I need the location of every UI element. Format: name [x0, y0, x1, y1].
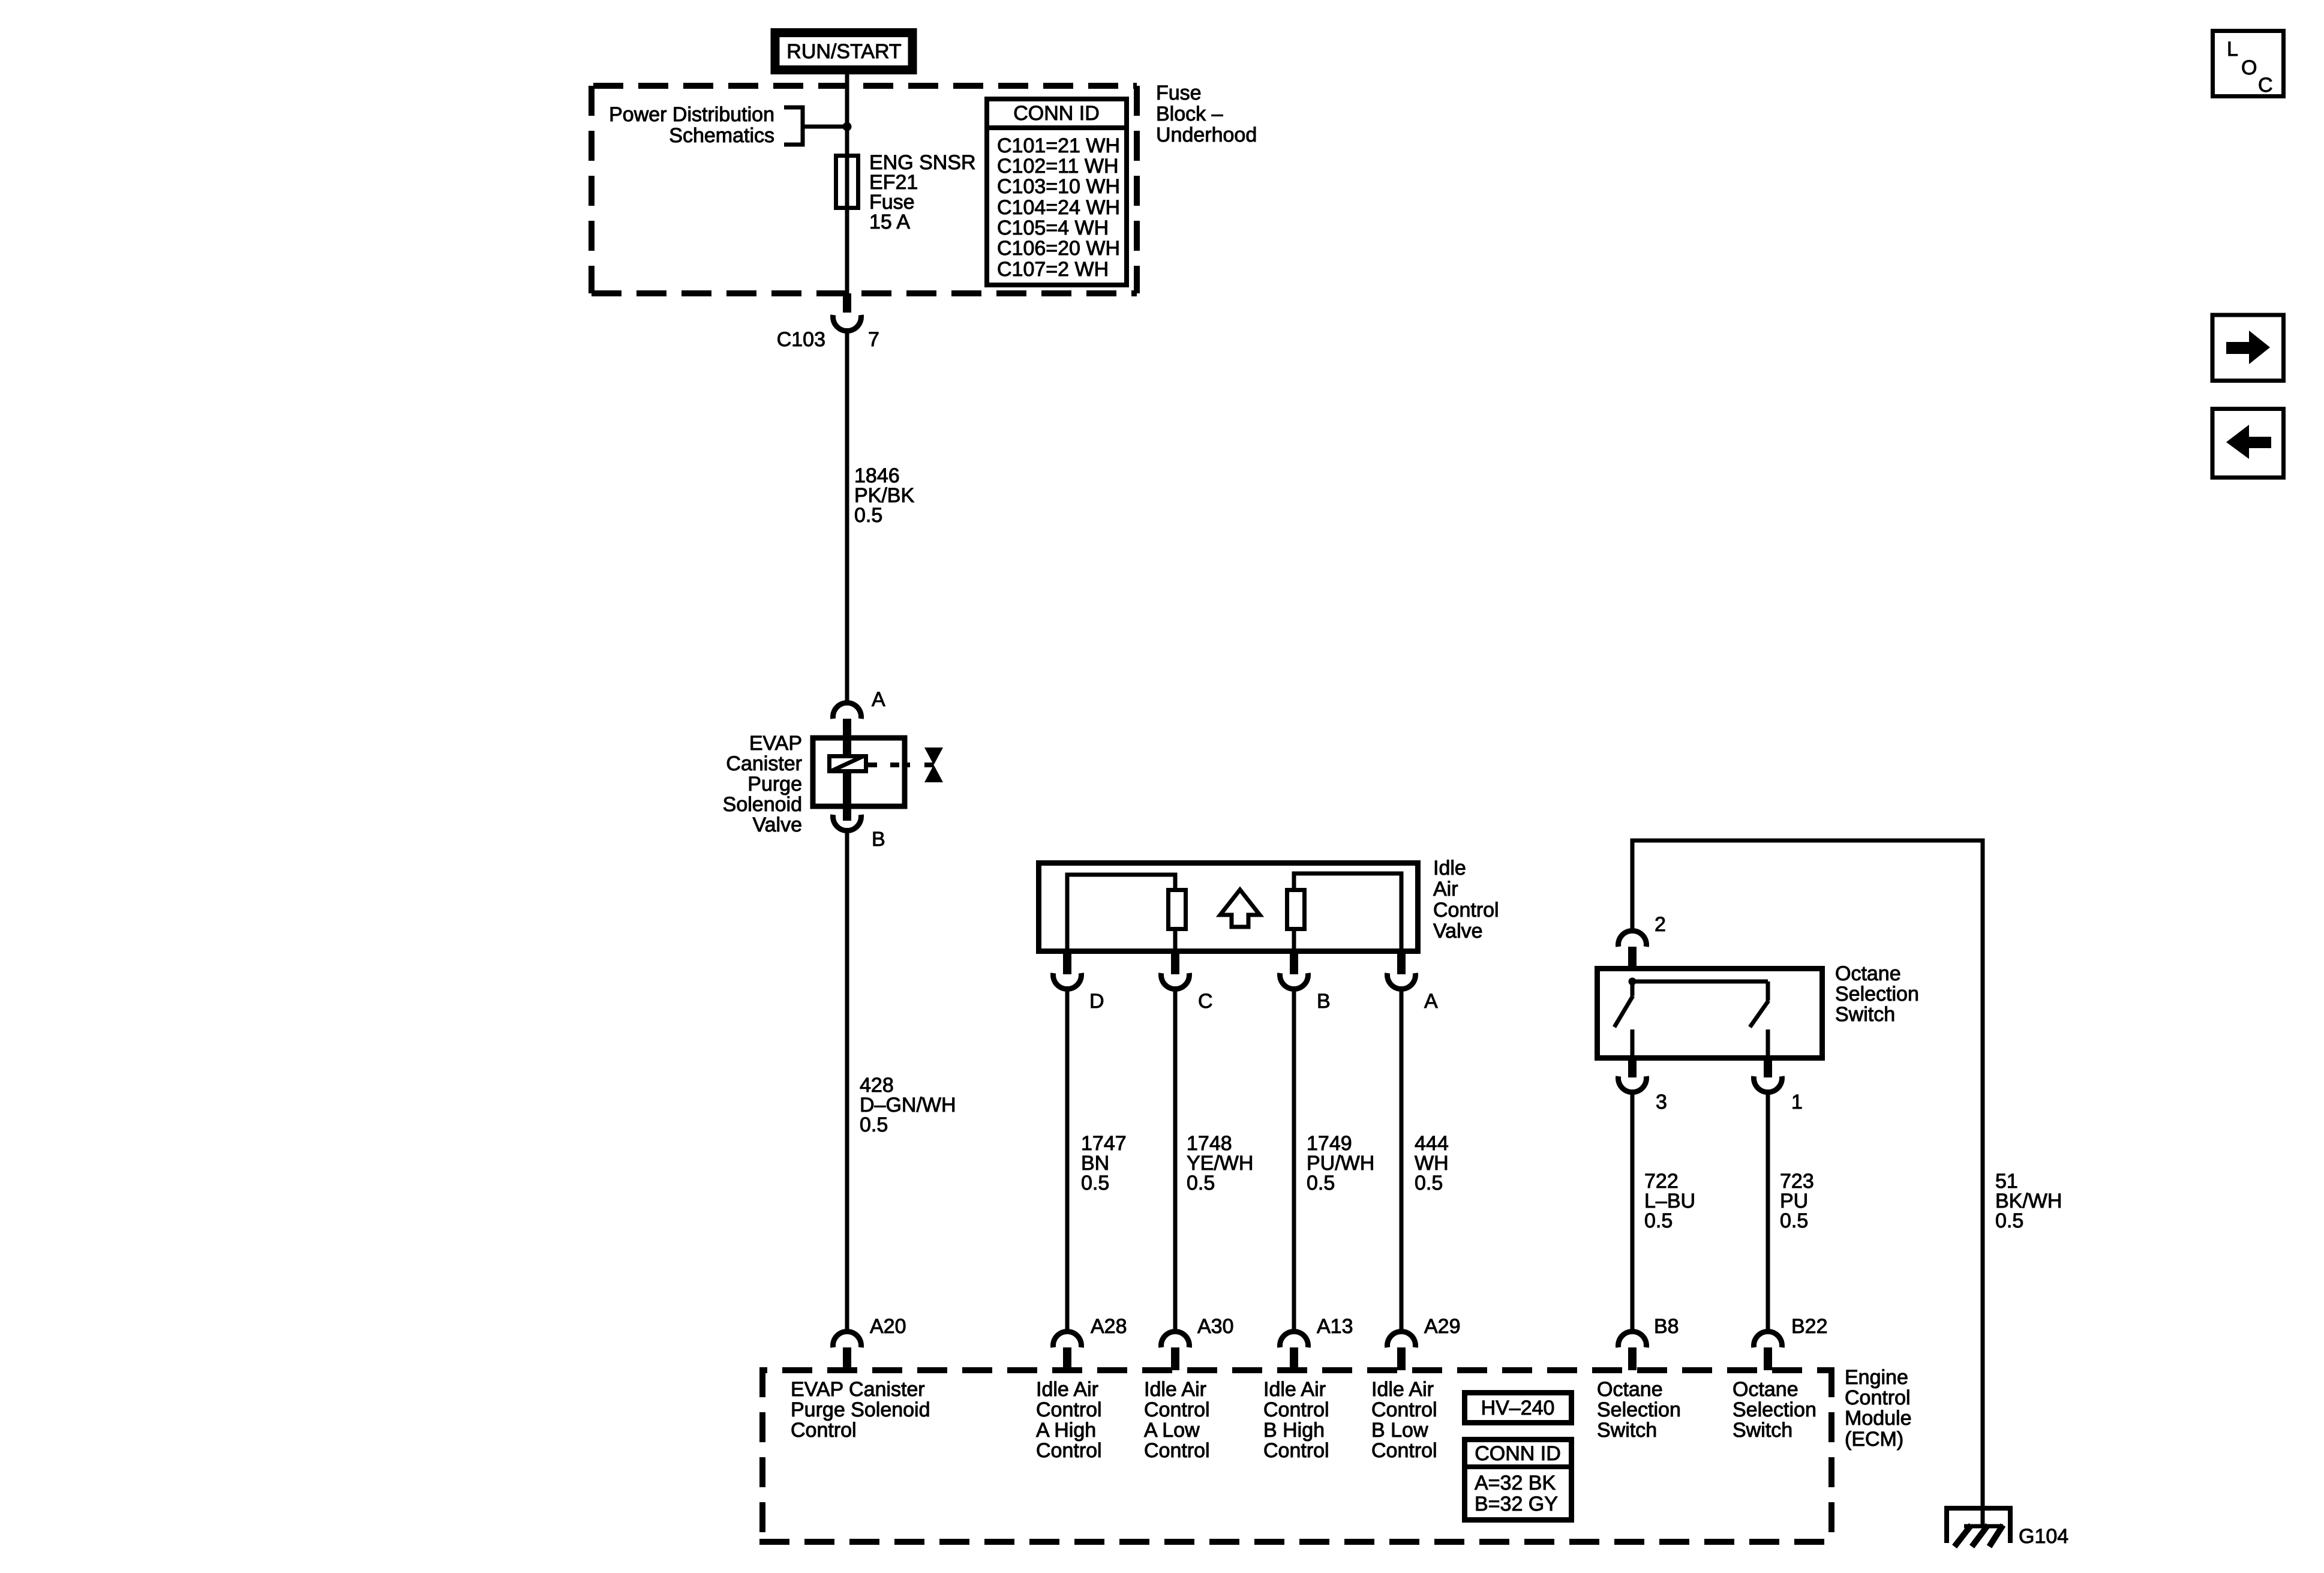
- wire pin 1 to ECM B22: [1766, 1092, 1770, 1333]
- svg-text:Engine: Engine: [1845, 1366, 1908, 1389]
- svg-text:Valve: Valve: [1433, 920, 1483, 942]
- connector C of IAC valve: [1161, 953, 1213, 1013]
- svg-text:A13: A13: [1317, 1315, 1353, 1338]
- LOC reference box: [2213, 31, 2284, 97]
- svg-text:C: C: [2258, 74, 2273, 97]
- IAC coil A (left) wiring: [1067, 875, 1175, 951]
- svg-text:B Low: B Low: [1371, 1419, 1428, 1442]
- svg-text:1: 1: [1791, 1091, 1803, 1113]
- svg-text:Module: Module: [1845, 1407, 1912, 1430]
- svg-text:Control: Control: [1036, 1439, 1102, 1462]
- switch internal wire to second pole: [1632, 980, 1768, 984]
- svg-text:CONN ID: CONN ID: [1475, 1442, 1561, 1465]
- wire 51 BK/WH down right side: [1981, 839, 1985, 1528]
- svg-text:A: A: [872, 688, 885, 711]
- label ENG SNSR EF21 Fuse 15 A: [869, 151, 976, 233]
- wire coil B to pin B: [1292, 931, 1296, 951]
- svg-text:A20: A20: [870, 1315, 906, 1338]
- svg-text:7: 7: [868, 328, 879, 351]
- svg-text:Power Distribution: Power Distribution: [609, 103, 774, 126]
- svg-text:3: 3: [1656, 1091, 1667, 1113]
- svg-text:Control: Control: [1263, 1439, 1329, 1462]
- svg-text:A=32 BK: A=32 BK: [1475, 1472, 1556, 1494]
- svg-text:0.5: 0.5: [1644, 1209, 1673, 1232]
- svg-text:B: B: [1317, 990, 1331, 1013]
- label Engine Control Module (ECM): [1845, 1366, 1912, 1451]
- svg-text:Switch: Switch: [1597, 1419, 1657, 1442]
- ECM dashed box: [759, 1367, 1834, 1545]
- wire IAC D to ECM A28: [1065, 989, 1070, 1334]
- connector C103 pin 7: [777, 293, 879, 351]
- svg-text:Control: Control: [791, 1419, 857, 1442]
- ECM pin function label Idle Air Control A Low Control: [1144, 1378, 1210, 1462]
- svg-text:Control: Control: [1144, 1398, 1210, 1421]
- svg-text:HV–240: HV–240: [1481, 1397, 1555, 1419]
- svg-text:Solenoid: Solenoid: [723, 793, 802, 816]
- ECM pin function label Octane Selection Switch (B22): [1733, 1378, 1816, 1442]
- IAC arrow symbol: [1220, 890, 1260, 927]
- svg-text:0.5: 0.5: [860, 1113, 888, 1136]
- svg-text:Control: Control: [1144, 1439, 1210, 1462]
- wire label 723 PU 0.5: [1780, 1170, 1814, 1232]
- svg-text:Schematics: Schematics: [669, 124, 774, 147]
- svg-text:Purge Solenoid: Purge Solenoid: [791, 1398, 930, 1421]
- IAC coil B wiring to pin A: [1294, 873, 1401, 951]
- octane selection switch box: [1598, 969, 1822, 1058]
- svg-text:0.5: 0.5: [854, 504, 882, 527]
- wire coil A to pin C: [1173, 931, 1178, 951]
- svg-text:Control: Control: [1433, 899, 1499, 921]
- svg-text:Octane: Octane: [1597, 1378, 1663, 1401]
- svg-text:Valve: Valve: [752, 813, 802, 836]
- connector A29 at ECM: [1388, 1315, 1461, 1370]
- svg-text:C107=2 WH: C107=2 WH: [997, 258, 1109, 281]
- wire IAC A to ECM A29: [1400, 989, 1404, 1334]
- EVAP canister purge solenoid valve box: [813, 738, 905, 806]
- back arrow box: [2212, 409, 2284, 478]
- label Fuse Block - Underhood: [1156, 82, 1257, 146]
- svg-text:0.5: 0.5: [1995, 1209, 2023, 1232]
- svg-text:C105=4 WH: C105=4 WH: [997, 217, 1109, 239]
- svg-text:Idle Air: Idle Air: [1263, 1378, 1326, 1401]
- svg-text:C106=20 WH: C106=20 WH: [997, 237, 1120, 260]
- svg-text:A Low: A Low: [1144, 1419, 1200, 1442]
- connector A28 at ECM: [1053, 1315, 1127, 1370]
- svg-text:Fuse: Fuse: [1156, 82, 1202, 104]
- wire pin 3 to ECM B8: [1631, 1092, 1635, 1333]
- svg-text:C103: C103: [777, 328, 825, 351]
- svg-text:A: A: [1424, 990, 1438, 1013]
- svg-text:Selection: Selection: [1835, 983, 1919, 1005]
- svg-text:(ECM): (ECM): [1845, 1428, 1903, 1451]
- connector A20 at ECM: [833, 1315, 906, 1370]
- svg-text:0.5: 0.5: [1307, 1172, 1335, 1194]
- connector pin 2 of octane switch: [1619, 913, 1666, 968]
- connector B22 at ECM: [1754, 1315, 1828, 1370]
- wire label 1846 PK/BK 0.5: [854, 464, 914, 527]
- svg-text:Canister: Canister: [726, 752, 802, 775]
- connector A30 at ECM: [1161, 1315, 1234, 1370]
- valve symbol (bowtie): [924, 748, 943, 782]
- dashed linkage to valve: [868, 763, 933, 767]
- svg-text:Air: Air: [1433, 878, 1458, 900]
- svg-text:A28: A28: [1091, 1315, 1127, 1338]
- svg-text:B: B: [872, 828, 885, 851]
- wire label 1748 YE/WH 0.5: [1187, 1132, 1253, 1194]
- wire IAC B to ECM A13: [1292, 989, 1296, 1334]
- svg-text:A30: A30: [1197, 1315, 1234, 1338]
- connector A13 at ECM: [1280, 1315, 1353, 1370]
- svg-text:C101=21 WH: C101=21 WH: [997, 134, 1120, 157]
- battery feed RUN/START: [775, 33, 912, 70]
- label Power Distribution Schematics: [609, 103, 774, 147]
- svg-text:Idle Air: Idle Air: [1371, 1378, 1434, 1401]
- svg-text:Purge: Purge: [747, 773, 802, 795]
- junction node on wire: [843, 122, 852, 131]
- connector B of IAC valve: [1280, 953, 1331, 1013]
- switch blade left: [1614, 981, 1633, 1061]
- wire from RUN/START to fuse: [845, 74, 849, 295]
- wire label 722 L-BU 0.5: [1644, 1170, 1695, 1232]
- svg-text:15 A: 15 A: [869, 211, 910, 233]
- svg-text:RUN/START: RUN/START: [786, 40, 901, 63]
- wire label 51 BK/WH 0.5: [1995, 1170, 2062, 1232]
- connector A of IAC valve: [1388, 953, 1438, 1013]
- svg-text:A High: A High: [1036, 1419, 1096, 1442]
- HV-240 reference box: [1465, 1393, 1572, 1423]
- svg-text:C104=24 WH: C104=24 WH: [997, 196, 1120, 219]
- svg-text:Idle Air: Idle Air: [1144, 1378, 1206, 1401]
- CONN ID table (fuse block): [987, 99, 1127, 285]
- wire IAC C to ECM A30: [1173, 989, 1178, 1334]
- idle air control valve box: [1039, 863, 1418, 951]
- svg-text:0.5: 0.5: [1780, 1209, 1808, 1232]
- label Idle Air Control Valve: [1433, 857, 1499, 942]
- wire label 1747 BN 0.5: [1081, 1132, 1127, 1194]
- connector B of EVAP solenoid: [833, 806, 885, 851]
- svg-text:Control: Control: [1263, 1398, 1329, 1421]
- fuse block underhood dashed box: [591, 86, 1137, 293]
- svg-text:G104: G104: [2019, 1525, 2068, 1548]
- connector pin 1 of octane switch: [1754, 1059, 1803, 1113]
- connector A of EVAP solenoid: [833, 688, 885, 739]
- label Octane Selection Switch (component): [1835, 962, 1919, 1026]
- ECM pin function label Idle Air Control A High Control: [1036, 1378, 1102, 1462]
- wire C103 to EVAP solenoid: [845, 331, 849, 704]
- ground G104: [1944, 1508, 2013, 1547]
- svg-text:O: O: [2241, 56, 2257, 79]
- svg-text:Selection: Selection: [1597, 1398, 1681, 1421]
- ECM pin function label Idle Air Control B High Control: [1263, 1378, 1329, 1462]
- svg-text:A29: A29: [1424, 1315, 1461, 1338]
- wire label 444 WH 0.5: [1415, 1132, 1449, 1194]
- IAC coil B (right): [1287, 890, 1305, 929]
- svg-text:B High: B High: [1263, 1419, 1325, 1442]
- svg-text:B=32 GY: B=32 GY: [1475, 1493, 1558, 1515]
- wire octane switch feed (top horizontal): [1632, 839, 1983, 843]
- svg-text:L: L: [2227, 38, 2238, 61]
- svg-text:CONN ID: CONN ID: [1013, 102, 1100, 125]
- svg-text:C102=11 WH: C102=11 WH: [997, 155, 1119, 178]
- svg-text:Block –: Block –: [1156, 103, 1223, 125]
- wire label 428 D-GN/WH 0.5: [860, 1074, 956, 1136]
- svg-text:C103=10 WH: C103=10 WH: [997, 175, 1120, 198]
- wire EVAP B to ECM A20: [845, 830, 849, 1334]
- svg-text:Switch: Switch: [1733, 1419, 1792, 1442]
- label EVAP Canister Purge Solenoid Valve: [723, 732, 802, 836]
- connector B8 at ECM: [1619, 1315, 1679, 1370]
- wire down to octane switch pin 2: [1631, 839, 1635, 933]
- svg-text:Control: Control: [1371, 1439, 1437, 1462]
- IAC coil A: [1169, 890, 1186, 929]
- switch blade right: [1750, 1001, 1768, 1061]
- svg-text:0.5: 0.5: [1187, 1172, 1215, 1194]
- CONN ID table (ECM): [1464, 1440, 1572, 1520]
- ECM pin function label EVAP Canister Purge Solenoid Control: [791, 1378, 930, 1442]
- svg-text:C: C: [1198, 990, 1213, 1013]
- bracket to Power Distribution Schematics: [784, 106, 847, 147]
- svg-text:Selection: Selection: [1733, 1398, 1816, 1421]
- wire label 1749 PU/WH 0.5: [1307, 1132, 1374, 1194]
- svg-text:EVAP Canister: EVAP Canister: [791, 1378, 925, 1401]
- ECM pin function label Idle Air Control B Low Control: [1371, 1378, 1437, 1462]
- solenoid coil: [830, 739, 866, 821]
- svg-text:0.5: 0.5: [1415, 1172, 1443, 1194]
- svg-text:Underhood: Underhood: [1156, 124, 1257, 146]
- svg-text:Octane: Octane: [1835, 962, 1901, 985]
- svg-text:B8: B8: [1654, 1315, 1679, 1338]
- svg-text:Switch: Switch: [1835, 1003, 1895, 1026]
- connector pin 3 of octane switch: [1619, 1059, 1667, 1113]
- fuse ENG SNSR EF21 15A: [836, 156, 858, 208]
- svg-text:D: D: [1089, 990, 1104, 1013]
- svg-text:EVAP: EVAP: [749, 732, 802, 755]
- svg-text:Control: Control: [1845, 1386, 1911, 1409]
- svg-text:Control: Control: [1036, 1398, 1102, 1421]
- svg-text:Control: Control: [1371, 1398, 1437, 1421]
- connector D of IAC valve: [1053, 953, 1104, 1013]
- svg-text:Octane: Octane: [1733, 1378, 1798, 1401]
- svg-text:B22: B22: [1791, 1315, 1828, 1338]
- ECM pin function label Octane Selection Switch (B8): [1597, 1378, 1681, 1442]
- svg-text:2: 2: [1655, 913, 1666, 936]
- svg-text:Idle Air: Idle Air: [1036, 1378, 1098, 1401]
- junction node inside switch: [1629, 978, 1637, 986]
- svg-text:0.5: 0.5: [1081, 1172, 1109, 1194]
- forward arrow box: [2212, 315, 2284, 381]
- svg-text:Idle: Idle: [1433, 857, 1466, 879]
